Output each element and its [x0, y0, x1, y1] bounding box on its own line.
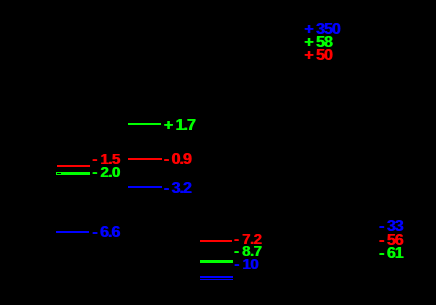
- label +350 (blue, top right): [304, 22, 339, 37]
- level line -0.9 (red): [128, 158, 162, 160]
- level line -2.0 (green, doubled): [56, 172, 90, 175]
- level line -7.2 (red): [200, 240, 232, 243]
- label +58 (green, top right): [304, 35, 332, 50]
- label -56 (red, right edge): [379, 233, 403, 248]
- level line -8.7 (green): [200, 260, 233, 263]
- label -0.9 (red): [164, 152, 191, 167]
- level line -3.2 (blue): [128, 186, 162, 188]
- level line -6.6 (blue): [56, 231, 89, 233]
- label -8.7 (green): [234, 244, 262, 259]
- level line +1.7 (green): [128, 123, 161, 125]
- level line -1.5 (red): [57, 165, 90, 167]
- level line -10 lower (blue): [200, 279, 233, 281]
- label -2.0 (green): [92, 165, 120, 180]
- label -10 (blue): [234, 257, 258, 272]
- label -3.2 (blue): [164, 181, 191, 196]
- label -1.5 (red): [92, 152, 120, 167]
- label -33 (blue, right edge): [379, 219, 403, 234]
- label -7.2 (red): [234, 232, 262, 247]
- label -61 (green, right edge): [379, 246, 403, 261]
- label +1.7 (green): [164, 118, 195, 133]
- notch in -2.0 line: [57, 173, 61, 174]
- level line -10 upper (blue): [200, 276, 233, 278]
- label -6.6 (blue): [92, 225, 119, 240]
- label +50 (red, top right): [304, 48, 332, 63]
